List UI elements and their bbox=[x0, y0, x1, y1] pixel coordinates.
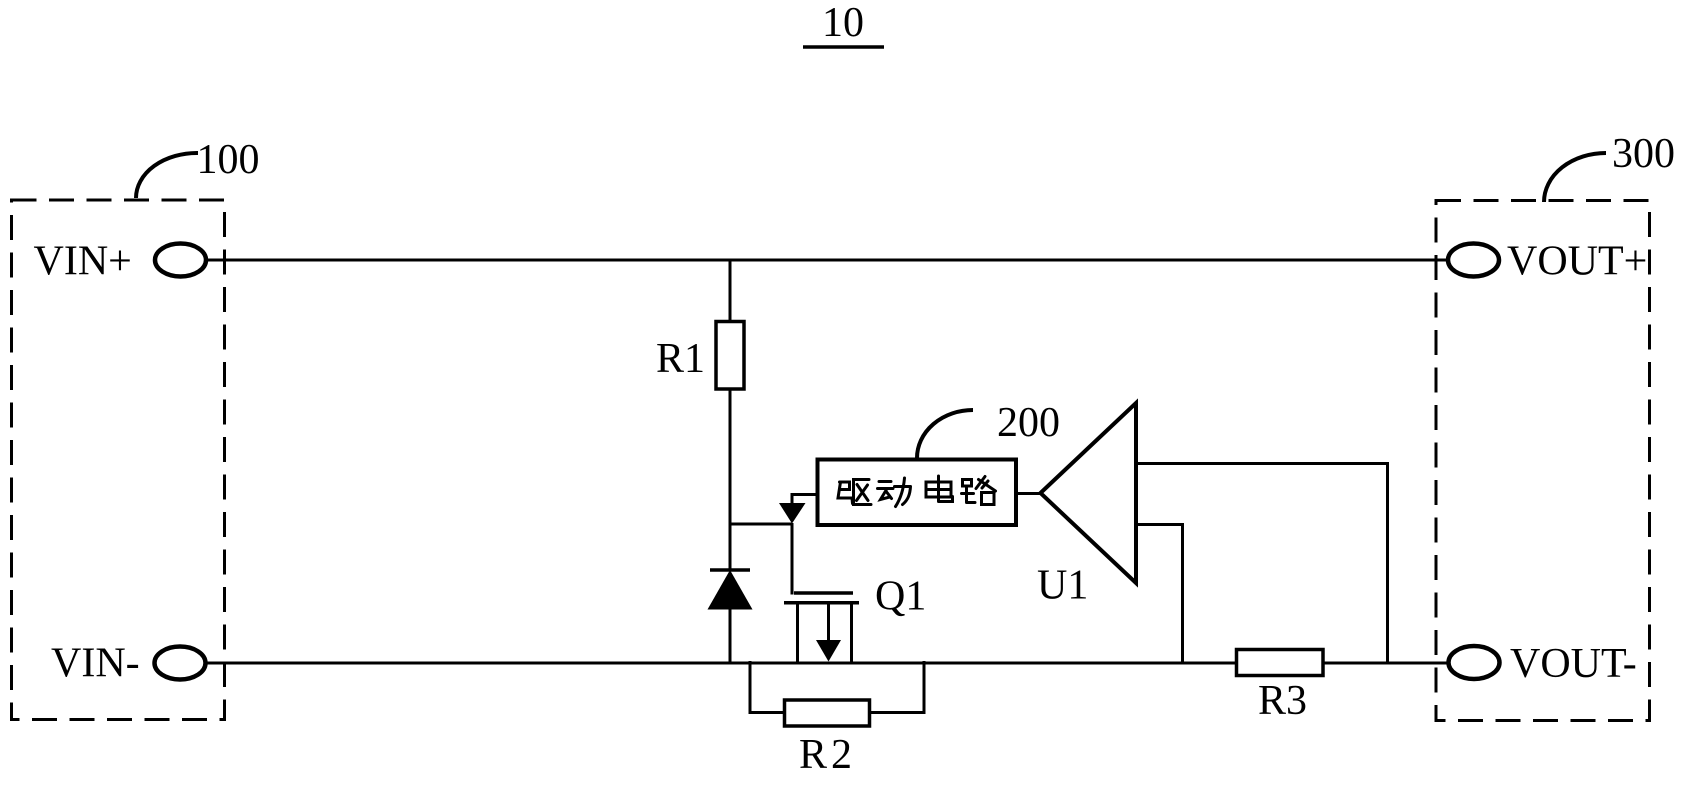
mosfet Q1 body arrow line bbox=[827, 602, 830, 645]
svg-text:R1: R1 bbox=[656, 336, 705, 382]
input block 100 dashed box bbox=[12, 200, 225, 720]
leader line to 300 bbox=[1544, 153, 1606, 202]
gate arrowhead bbox=[779, 503, 806, 524]
char 驱 bbox=[838, 482, 853, 504]
svg-text:300: 300 bbox=[1612, 131, 1675, 177]
op-amp U1 bbox=[1041, 403, 1137, 583]
output block 300 dashed box bbox=[1436, 201, 1650, 721]
mosfet Q1 gate bar bbox=[794, 591, 853, 595]
diode D1 cathode bar bbox=[710, 568, 750, 572]
wire R1 to diode bbox=[729, 391, 732, 572]
wire driver output to U1 bbox=[1015, 492, 1043, 495]
label 驱动电路 (hand-drawn strokes) bbox=[838, 476, 996, 507]
svg-text:VOUT-: VOUT- bbox=[1510, 641, 1637, 687]
svg-text:200: 200 bbox=[997, 400, 1060, 446]
wire gate vertical bbox=[791, 523, 794, 595]
mosfet Q1 source lead bbox=[850, 602, 853, 663]
wire U1 upper input feedback bbox=[1136, 464, 1388, 663]
wire bottom rail VIN- to R3 bbox=[208, 662, 1237, 665]
terminal VOUT+ bbox=[1448, 244, 1499, 277]
driver circuit block 200 bbox=[818, 460, 1017, 526]
title underline bbox=[803, 45, 884, 49]
svg-text:VIN+: VIN+ bbox=[34, 239, 132, 285]
resistor R1 bbox=[716, 322, 744, 390]
char 动 bbox=[878, 482, 894, 500]
resistor R3 bbox=[1237, 650, 1324, 676]
svg-text:100: 100 bbox=[197, 137, 260, 183]
char 电 bbox=[926, 476, 953, 502]
terminal VIN+ bbox=[155, 244, 206, 277]
wire U1 lower input bbox=[1136, 525, 1183, 663]
leader line to 100 bbox=[136, 153, 198, 198]
svg-text:R3: R3 bbox=[1258, 678, 1307, 724]
wire bottom rail R3 to VOUT- bbox=[1324, 662, 1447, 665]
mosfet Q1 channel bar bbox=[784, 601, 859, 605]
resistor R2 bbox=[785, 700, 870, 726]
terminal VOUT- bbox=[1449, 646, 1500, 679]
svg-text:VOUT+: VOUT+ bbox=[1507, 239, 1647, 285]
svg-text:Q1: Q1 bbox=[875, 574, 926, 620]
wire R2 left stub bbox=[750, 661, 783, 713]
svg-text:10: 10 bbox=[822, 0, 864, 46]
svg-text:VIN-: VIN- bbox=[51, 641, 140, 687]
char 路 bbox=[962, 480, 976, 503]
wire R2 right stub bbox=[871, 661, 924, 713]
svg-text:U1: U1 bbox=[1037, 563, 1088, 609]
wire driver output to gate arrow bbox=[792, 495, 819, 507]
wire top rail VIN+ to VOUT+ bbox=[208, 259, 1446, 262]
mosfet Q1 body arrowhead bbox=[816, 640, 841, 662]
svg-text:R2: R2 bbox=[799, 732, 856, 778]
diode D1 body bbox=[708, 570, 753, 610]
wire diode anode to bottom rail bbox=[729, 609, 732, 663]
mosfet Q1 drain lead bbox=[796, 602, 799, 663]
terminal VIN- bbox=[155, 647, 206, 680]
wire top rail to R1 bbox=[729, 259, 732, 322]
leader line to 200 bbox=[917, 410, 973, 458]
wire gate branch horizontal bbox=[729, 523, 793, 526]
